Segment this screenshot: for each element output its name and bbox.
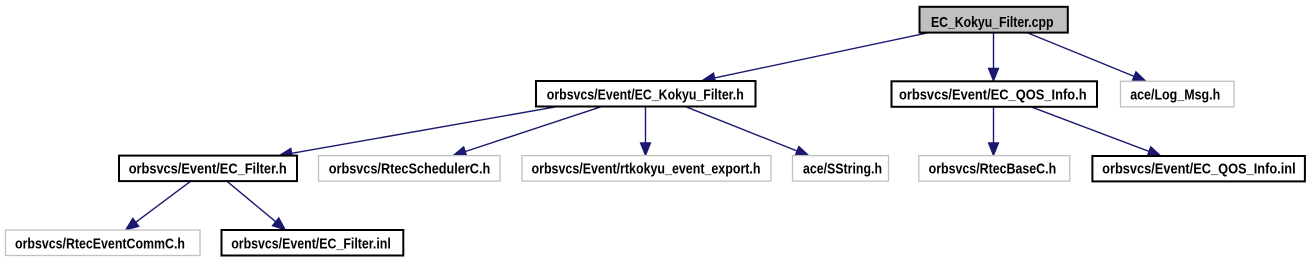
svg-text:orbsvcs/RtecBaseC.h: orbsvcs/RtecBaseC.h bbox=[929, 161, 1057, 178]
node orbsvcs/Event/EC_Filter.inl bbox=[222, 230, 404, 256]
node ace/SString.h bbox=[793, 156, 889, 182]
edge EC_Kokyu_Filter.cpp -> ace/Log_Msg.h bbox=[1027, 33, 1146, 82]
node orbsvcs/RtecBaseC.h bbox=[919, 156, 1070, 182]
edge EC_Kokyu_Filter.cpp -> orbsvcs/Event/EC_Kokyu_Filter.h bbox=[702, 33, 929, 83]
svg-text:orbsvcs/Event/EC_Kokyu_Filter.: orbsvcs/Event/EC_Kokyu_Filter.h bbox=[547, 87, 744, 104]
svg-text:orbsvcs/Event/EC_QOS_Info.h: orbsvcs/Event/EC_QOS_Info.h bbox=[899, 87, 1087, 104]
svg-text:orbsvcs/Event/EC_QOS_Info.inl: orbsvcs/Event/EC_QOS_Info.inl bbox=[1102, 161, 1296, 178]
svg-text:orbsvcs/RtecEventCommC.h: orbsvcs/RtecEventCommC.h bbox=[15, 236, 185, 253]
node EC_Kokyu_Filter.cpp bbox=[920, 7, 1068, 33]
edge EC_Filter.h -> orbsvcs/Event/EC_Filter.inl bbox=[227, 181, 286, 230]
svg-text:orbsvcs/Event/rtkokyu_event_ex: orbsvcs/Event/rtkokyu_event_export.h bbox=[532, 161, 761, 178]
edge EC_Kokyu_Filter.h -> ace/SString.h bbox=[686, 107, 809, 156]
edge EC_Kokyu_Filter.h -> orbsvcs/Event/rtkokyu_event_export.h bbox=[640, 107, 650, 156]
edge EC_Kokyu_Filter.h -> orbsvcs/RtecSchedulerC.h bbox=[453, 107, 601, 157]
edge EC_QOS_Info.h -> orbsvcs/Event/EC_QOS_Info.inl bbox=[1031, 107, 1161, 157]
svg-text:orbsvcs/RtecSchedulerC.h: orbsvcs/RtecSchedulerC.h bbox=[329, 161, 491, 178]
node ace/Log_Msg.h bbox=[1121, 81, 1235, 107]
node orbsvcs/RtecEventCommC.h bbox=[6, 230, 201, 256]
node orbsvcs/RtecSchedulerC.h bbox=[319, 156, 501, 182]
node orbsvcs/Event/EC_QOS_Info.h bbox=[892, 81, 1098, 107]
svg-text:ace/SString.h: ace/SString.h bbox=[803, 161, 882, 178]
edge EC_Filter.h -> orbsvcs/RtecEventCommC.h bbox=[126, 181, 191, 230]
svg-text:orbsvcs/Event/EC_Filter.inl: orbsvcs/Event/EC_Filter.inl bbox=[231, 236, 391, 253]
edge EC_Kokyu_Filter.h -> orbsvcs/Event/EC_Filter.h bbox=[279, 107, 556, 159]
node orbsvcs/Event/EC_Kokyu_Filter.h bbox=[536, 81, 756, 107]
node orbsvcs/Event/EC_Filter.h bbox=[119, 156, 297, 182]
edge EC_QOS_Info.h -> orbsvcs/RtecBaseC.h bbox=[988, 107, 998, 156]
edge EC_Kokyu_Filter.cpp -> orbsvcs/Event/EC_QOS_Info.h bbox=[988, 33, 998, 82]
svg-text:EC_Kokyu_Filter.cpp: EC_Kokyu_Filter.cpp bbox=[931, 14, 1054, 31]
svg-text:ace/Log_Msg.h: ace/Log_Msg.h bbox=[1130, 87, 1220, 104]
svg-text:orbsvcs/Event/EC_Filter.h: orbsvcs/Event/EC_Filter.h bbox=[129, 161, 287, 178]
node orbsvcs/Event/EC_QOS_Info.inl bbox=[1092, 156, 1305, 181]
node orbsvcs/Event/rtkokyu_event_export.h bbox=[522, 156, 771, 182]
